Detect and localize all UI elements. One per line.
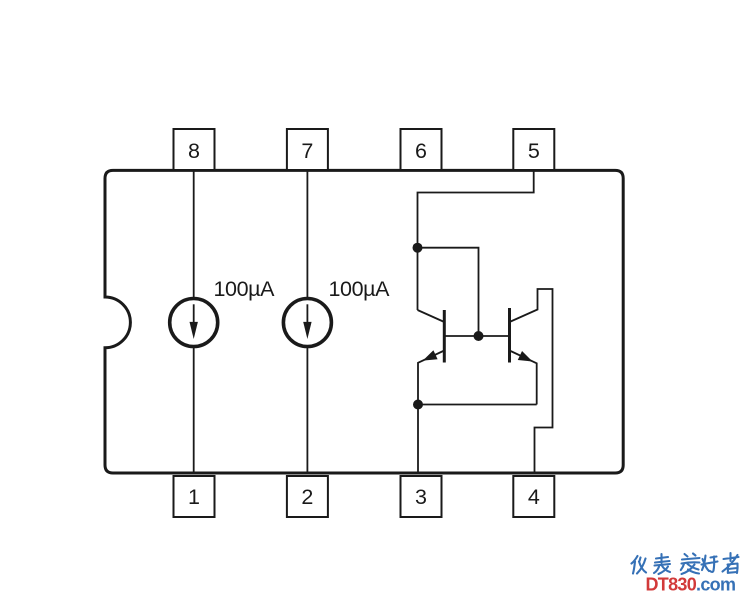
transistor Q2 base bar bbox=[508, 308, 511, 363]
transistor Q2 emitter arrow bbox=[518, 351, 533, 362]
wire current source I1 to pin 1 bbox=[193, 346, 195, 473]
svg-text:4: 4 bbox=[528, 485, 540, 509]
transistor Q1 collector bbox=[418, 310, 445, 322]
IC package body U1 (DIP-8 outline with left notch) bbox=[105, 170, 623, 473]
wire pin 7 to current source I2 bbox=[306, 170, 308, 299]
transistor Q2 emitter bbox=[510, 351, 537, 405]
wire pin 5 to node A bbox=[418, 170, 534, 248]
svg-text:100µA: 100µA bbox=[329, 277, 391, 301]
wire current source I2 to pin 2 bbox=[306, 346, 308, 473]
svg-text:DT830.com: DT830.com bbox=[646, 575, 736, 595]
pin 3 box bbox=[401, 476, 442, 517]
svg-text:8: 8 bbox=[188, 139, 200, 163]
transistor Q1 emitter bbox=[418, 351, 444, 405]
svg-text:7: 7 bbox=[301, 139, 313, 163]
svg-text:6: 6 bbox=[415, 139, 427, 163]
svg-text:2: 2 bbox=[301, 485, 313, 509]
svg-text:3: 3 bbox=[415, 485, 427, 509]
transistor Q1 base bar bbox=[443, 310, 446, 363]
pin 8 box bbox=[174, 129, 215, 170]
pin 6 box bbox=[401, 129, 442, 170]
node B junction dot bbox=[413, 400, 423, 410]
base wire between Q1 and Q2 bbox=[444, 335, 509, 337]
svg-text:5: 5 bbox=[528, 139, 540, 163]
transistor Q1 emitter arrow bbox=[423, 350, 438, 360]
emitter rail wire to node B bbox=[418, 404, 537, 406]
svg-text:100µA: 100µA bbox=[214, 277, 276, 301]
pin 1 box bbox=[174, 476, 215, 517]
svg-text:1: 1 bbox=[188, 485, 200, 509]
pin 4 box bbox=[513, 476, 554, 517]
current source I2 circle bbox=[283, 299, 331, 347]
wire pin 8 to current source I1 bbox=[193, 170, 195, 299]
pin 2 box bbox=[287, 476, 328, 517]
wire node B to pin 3 bbox=[417, 405, 419, 474]
watermark chinese text "instrument enthusiasts" (approximated stroke paths) bbox=[632, 553, 739, 574]
current source I2 arrow bbox=[303, 304, 311, 339]
pin 7 box bbox=[287, 129, 328, 170]
wire node A to node C (bases) bbox=[418, 248, 479, 336]
wire node A to collector of Q1 bbox=[417, 248, 419, 310]
node A junction dot bbox=[413, 243, 423, 253]
node C junction dot (common bases) bbox=[474, 331, 484, 341]
pin 5 box bbox=[513, 129, 554, 170]
current source I1 arrow bbox=[190, 304, 198, 339]
transistor Q2 collector to pin 4 bbox=[510, 289, 553, 473]
current source I1 circle bbox=[170, 299, 218, 347]
